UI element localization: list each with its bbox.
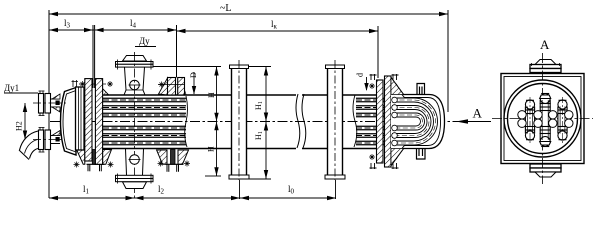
bolts bottom: [370, 163, 377, 169]
bracket assembly top-right: [158, 78, 186, 96]
front joint bottom gussets and bolts: [74, 150, 114, 172]
view direction arrow A: [458, 121, 491, 123]
dimension H (top): [154, 67, 222, 177]
front joint top gussets: [79, 81, 113, 95]
view A bottom tab: [530, 164, 561, 177]
svg-text:Ду1: Ду1: [4, 83, 19, 93]
shell break lines: [296, 94, 300, 148]
support bracket bottom-right: [157, 150, 190, 172]
U-bend tubes: [392, 98, 438, 145]
head bottom tab: [417, 149, 426, 159]
front head bonnet: [61, 88, 77, 156]
tubesheet end circles: [392, 97, 398, 146]
main axis centerline: [50, 121, 458, 123]
bolts top: [370, 74, 377, 80]
dimension lk: [177, 26, 379, 78]
view A left tube column: [525, 100, 535, 140]
svg-text:~L: ~L: [220, 3, 232, 14]
tube bundle left: [103, 96, 188, 147]
tubesheet: [85, 79, 92, 161]
view A circles: [504, 80, 581, 157]
front head flange: [76, 87, 85, 150]
view A center tube column: [540, 94, 551, 147]
dimension l2 bottom: [135, 197, 241, 199]
dimension l1 bottom: [49, 197, 135, 199]
rear head: [391, 78, 445, 166]
svg-text:H: H: [207, 92, 216, 98]
view A crosshair: [492, 118, 593, 120]
view A plate: [501, 74, 584, 164]
dimension l4: [95, 25, 177, 78]
svg-text:Ду: Ду: [139, 36, 150, 46]
shell bottom line: [102, 148, 231, 150]
tube bundle right: [353, 95, 384, 147]
svg-text:A: A: [473, 106, 483, 121]
flange bolts top: [72, 80, 79, 87]
rear flange joint: [369, 74, 399, 169]
shell flange: [95, 79, 102, 165]
support plate left: [229, 60, 249, 199]
dimension ~L: [49, 10, 448, 198]
dimension H2: [24, 103, 26, 140]
bottom nozzle: [116, 149, 154, 189]
svg-text:D: D: [189, 72, 198, 78]
support plate right: [325, 60, 345, 199]
elbow pipe: [20, 131, 39, 150]
left lower nozzle with elbow: [19, 127, 62, 160]
shell top line: [102, 95, 377, 149]
dimension H1 bottom: [249, 122, 271, 180]
svg-text:H: H: [207, 146, 216, 152]
dimension H1 top: [248, 67, 271, 122]
dimension l0 bottom: [240, 197, 336, 199]
top nozzle Du: [116, 56, 154, 96]
view A top tab: [530, 60, 561, 73]
left upper nozzle Du1: [33, 91, 66, 117]
dimension l3: [49, 25, 95, 88]
head top tab: [417, 84, 425, 95]
view A column centerlines: [530, 97, 563, 143]
svg-text:d: d: [356, 73, 365, 77]
svg-text:H2: H2: [15, 121, 24, 131]
view A right tube column: [558, 100, 568, 140]
view A small tube circles: [518, 111, 573, 128]
svg-text:A: A: [540, 37, 550, 52]
top nozzle vertical centerline: [134, 52, 136, 199]
